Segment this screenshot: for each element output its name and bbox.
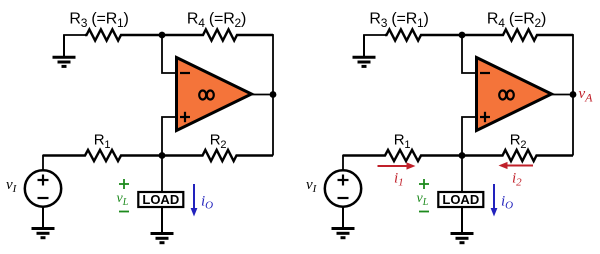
node: output node (right) [570,91,577,98]
resistor R1 (left) [43,150,162,161]
wire (R4 to output node, right) [572,34,574,94]
wire (junction to inverting input, right) [462,35,477,73]
resistor R3 (left) [85,29,162,40]
wire (op-amp output, left) [251,94,273,96]
wire (source to R1, right) [343,156,345,171]
label - (load voltage polarity, left) [119,211,129,213]
label - (load voltage polarity, right) [419,211,429,213]
left circuit [6,10,276,242]
op-amp U (right) [477,58,552,131]
ground (top-left, left) [53,35,76,66]
ground (below load, right) [451,207,474,243]
resistor R4 (right) [462,29,573,40]
current arrow iO (right) [491,184,498,217]
ground (below source, left) [32,207,55,238]
label + (load voltage polarity, right) [419,179,429,189]
resistor R3 (right) [385,29,462,40]
svg-text:LOAD: LOAD [142,192,179,207]
resistor R1 (right) [343,150,462,161]
wire (junction to inverting input, left) [162,35,177,73]
label + (load voltage polarity, left) [119,179,129,189]
current arrow i2 (right) [499,162,534,169]
ground (below source, right) [332,207,355,238]
wire (load to ground, left) [161,207,163,232]
wire (op-amp output, right) [551,94,573,96]
svg-text:LOAD: LOAD [442,192,479,207]
ground (below load, left) [151,207,174,243]
wire (junction to load, left) [161,156,163,193]
load box (right) [438,192,483,207]
node: junction of R1/R2/load/non-inverting input (left) [159,152,166,159]
node: junction of R3/R4/inverting input (left) [159,32,166,39]
load box (left) [138,192,183,207]
right circuit [306,10,593,242]
op-amp U (left) [177,58,252,131]
node: junction of R1/R2/load/non-inverting input (right) [459,152,466,159]
current arrow iO (left) [191,184,198,217]
resistor R2 (right) [462,150,573,161]
wire (output node to R2, left) [272,95,274,156]
wire (source to R1, left) [43,156,45,171]
wire (junction to non-inverting input, right) [462,117,477,156]
node: output node (left) [270,91,277,98]
wire (load to ground, right) [461,207,463,232]
wire (ground to R3, left) [63,34,86,36]
node: junction of R3/R4/inverting input (right) [459,32,466,39]
resistor R2 (left) [162,150,273,161]
wire (ground to R3, right) [363,34,386,36]
wire (R4 to output node, left) [272,34,274,94]
wire (junction to non-inverting input, left) [162,117,177,156]
wire (junction to load, right) [461,156,463,193]
ground (top-left, right) [353,35,376,66]
wire (output node to R2, right) [572,95,574,156]
voltage source vI (left) [25,170,61,206]
resistor R4 (left) [162,29,273,40]
voltage source vI (right) [325,170,361,206]
current arrow i1 (right) [378,162,416,169]
